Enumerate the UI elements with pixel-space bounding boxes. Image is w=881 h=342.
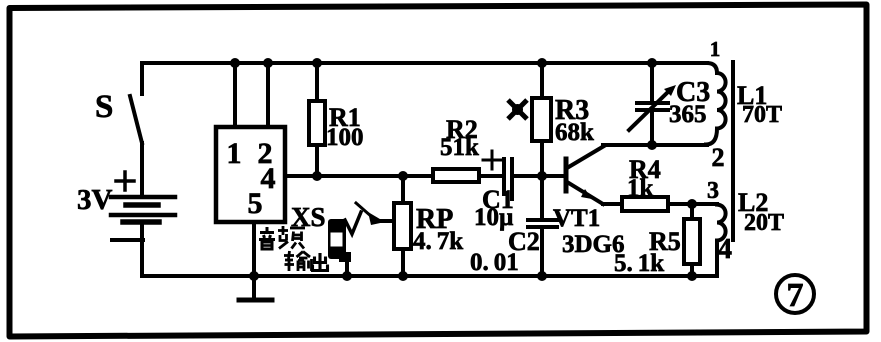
svg-text:10µ: 10µ [474,204,513,231]
svg-text:1: 1 [710,37,721,61]
svg-text:70T: 70T [742,102,782,128]
svg-text:365: 365 [669,101,707,128]
svg-text:4: 4 [261,162,276,195]
svg-text:20T: 20T [744,210,784,236]
svg-text:5. 1k: 5. 1k [614,250,664,277]
svg-text:2: 2 [712,143,725,172]
svg-text:51k: 51k [440,134,479,161]
svg-text:0. 01: 0. 01 [470,249,519,276]
svg-text:7: 7 [787,277,804,314]
svg-text:3: 3 [707,178,719,204]
svg-text:4: 4 [718,234,732,265]
svg-text:100: 100 [326,124,364,151]
svg-text:3V: 3V [77,184,113,216]
svg-text:1: 1 [227,137,242,170]
svg-text:5: 5 [248,187,263,220]
svg-text:1k: 1k [627,175,654,202]
svg-text:68k: 68k [555,119,594,146]
svg-text:4. 7k: 4. 7k [413,228,463,255]
svg-text:S: S [95,89,113,125]
svg-text:VT1: VT1 [553,205,600,232]
